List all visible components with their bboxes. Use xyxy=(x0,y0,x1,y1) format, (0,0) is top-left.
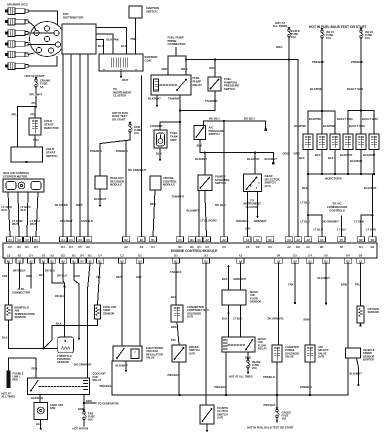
svg-text:PPL/WHT: PPL/WHT xyxy=(60,219,73,223)
svg-text:TAN/WHT: TAN/WHT xyxy=(172,195,185,199)
svg-text:C4: C4 xyxy=(308,254,312,258)
svg-text:LT BLU: LT BLU xyxy=(233,317,242,321)
svg-text:CONNECTOR: CONNECTOR xyxy=(12,291,30,295)
svg-text:WHT/BLK: WHT/BLK xyxy=(13,269,25,273)
svg-text:LT GRN: LT GRN xyxy=(366,228,376,232)
svg-text:C5: C5 xyxy=(197,245,201,249)
svg-text:C4: C4 xyxy=(98,254,102,258)
svg-text:UNIT: UNIT xyxy=(170,138,177,142)
svg-text:BLK/WHT: BLK/WHT xyxy=(195,157,208,161)
svg-text:A2: A2 xyxy=(306,245,310,249)
svg-text:PPL: PPL xyxy=(32,101,38,105)
svg-text:C2: C2 xyxy=(8,245,12,249)
svg-text:OR START: OR START xyxy=(112,117,126,121)
svg-text:A2: A2 xyxy=(239,254,243,258)
svg-text:DK BLU: DK BLU xyxy=(55,294,65,298)
svg-text:HOT IN FUEL BULB TEST OR START: HOT IN FUEL BULB TEST OR START xyxy=(309,25,367,29)
svg-text:A2: A2 xyxy=(324,254,328,258)
svg-text:BRN/WHT: BRN/WHT xyxy=(234,277,247,281)
svg-text:TAN/BLK: TAN/BLK xyxy=(170,270,182,274)
svg-text:BLK/RED: BLK/RED xyxy=(55,203,68,207)
svg-text:CLUSTER: CLUSTER xyxy=(246,205,259,209)
svg-text:BLK: BLK xyxy=(2,208,8,212)
svg-text:C3: C3 xyxy=(7,254,11,258)
svg-text:SWITCH: SWITCH xyxy=(215,181,226,185)
svg-text:BLK/PNK: BLK/PNK xyxy=(309,117,321,121)
svg-text:C3: C3 xyxy=(287,238,291,242)
svg-text:C4: C4 xyxy=(246,245,250,249)
svg-text:C3: C3 xyxy=(120,254,124,258)
svg-text:ORG: ORG xyxy=(294,152,300,156)
svg-text:D2: D2 xyxy=(359,254,363,258)
svg-text:D1: D1 xyxy=(138,254,142,258)
svg-text:DK BLU: DK BLU xyxy=(45,269,55,273)
svg-text:PPL/WHT: PPL/WHT xyxy=(30,93,43,97)
svg-text:LT BLU: LT BLU xyxy=(314,228,323,232)
svg-text:ORG/BLK: ORG/BLK xyxy=(236,219,248,223)
svg-text:BLK: BLK xyxy=(21,208,27,212)
svg-text:D2: D2 xyxy=(268,238,272,242)
svg-text:SWITCH: SWITCH xyxy=(209,132,220,136)
svg-text:WHT: WHT xyxy=(30,222,36,226)
svg-text:B1: B1 xyxy=(18,254,22,258)
svg-text:C5: C5 xyxy=(197,238,201,242)
svg-text:C1: C1 xyxy=(178,238,182,242)
svg-text:HOT IN RUN: HOT IN RUN xyxy=(73,426,89,430)
svg-text:BRN: BRN xyxy=(304,318,310,322)
svg-text:(A/T): (A/T) xyxy=(187,315,193,319)
svg-text:SENSOR: SENSOR xyxy=(103,311,114,315)
svg-text:SWITCH: SWITCH xyxy=(146,9,157,13)
svg-text:WHT: WHT xyxy=(122,78,129,82)
svg-text:BLK: BLK xyxy=(56,321,62,325)
svg-text:SWITCH: SWITCH xyxy=(46,154,57,158)
svg-text:C1: C1 xyxy=(69,238,73,242)
svg-text:A2: A2 xyxy=(205,238,209,242)
svg-text:A2: A2 xyxy=(222,238,226,242)
svg-text:BRN: BRN xyxy=(86,399,92,403)
svg-text:C4: C4 xyxy=(61,238,65,242)
svg-text:ALL TIMES: ALL TIMES xyxy=(2,395,16,399)
svg-text:C3: C3 xyxy=(256,245,260,249)
svg-text:D1: D1 xyxy=(34,238,38,242)
svg-text:BLK: BLK xyxy=(328,156,334,160)
svg-text:BLK: BLK xyxy=(197,144,203,148)
svg-text:WHT: WHT xyxy=(116,275,122,279)
svg-text:ORG: ORG xyxy=(276,45,282,49)
svg-text:PNK/BLK: PNK/BLK xyxy=(300,385,312,389)
svg-text:BLK/WHT: BLK/WHT xyxy=(247,157,260,161)
svg-text:SPARKPLUGS: SPARKPLUGS xyxy=(7,3,28,7)
svg-text:(A/T): (A/T) xyxy=(189,351,195,355)
svg-text:BLK: BLK xyxy=(222,317,228,321)
svg-text:BLK: BLK xyxy=(302,186,308,190)
svg-text:(A/T): (A/T) xyxy=(217,416,223,420)
svg-text:C1: C1 xyxy=(8,238,12,242)
svg-text:D2: D2 xyxy=(371,238,375,242)
svg-text:MODULE: MODULE xyxy=(163,183,175,187)
svg-text:DK GRN/YEL: DK GRN/YEL xyxy=(268,317,285,321)
svg-text:A2: A2 xyxy=(124,245,128,249)
svg-text:BLK/LT GRN: BLK/LT GRN xyxy=(362,117,378,121)
svg-text:PNK/BLK: PNK/BLK xyxy=(312,60,324,64)
svg-text:HOT AT ALL TIMES: HOT AT ALL TIMES xyxy=(229,374,253,378)
svg-text:PPL: PPL xyxy=(12,113,18,117)
svg-text:CLUSTER: CLUSTER xyxy=(113,94,126,98)
svg-text:(A/T): (A/T) xyxy=(318,355,324,359)
svg-text:TAN: TAN xyxy=(2,274,7,278)
svg-text:DK GRN/WHT: DK GRN/WHT xyxy=(74,363,92,367)
svg-text:C3: C3 xyxy=(25,238,29,242)
svg-text:D1: D1 xyxy=(25,245,29,249)
svg-text:B1: B1 xyxy=(140,238,144,242)
svg-text:BLK: BLK xyxy=(222,277,228,281)
svg-text:BLK/LT GRN: BLK/LT GRN xyxy=(347,87,363,91)
svg-text:BRN: BRN xyxy=(341,283,347,287)
svg-text:C4: C4 xyxy=(246,238,250,242)
svg-text:D4: D4 xyxy=(346,254,350,258)
svg-text:RELAY: RELAY xyxy=(93,378,102,382)
svg-text:DK BLU: DK BLU xyxy=(57,274,67,278)
svg-text:INJECTORS: INJECTORS xyxy=(325,177,342,181)
svg-text:TAN: TAN xyxy=(288,283,293,287)
svg-text:MODULE: MODULE xyxy=(110,183,122,187)
svg-text:D2: D2 xyxy=(80,260,84,264)
svg-text:C3: C3 xyxy=(320,238,324,242)
svg-text:D4: D4 xyxy=(69,245,73,249)
svg-text:PNK/BLK: PNK/BLK xyxy=(168,373,180,377)
svg-text:TAN/BLK: TAN/BLK xyxy=(81,219,93,223)
svg-text:GRY: GRY xyxy=(75,274,81,278)
svg-text:RELAY: RELAY xyxy=(193,83,203,87)
svg-text:C4: C4 xyxy=(29,254,33,258)
svg-text:A2: A2 xyxy=(86,245,90,249)
svg-text:20A: 20A xyxy=(252,366,257,370)
svg-text:BLK/WHT: BLK/WHT xyxy=(148,97,161,101)
svg-text:DK BLU: DK BLU xyxy=(209,116,220,120)
svg-text:COIL: COIL xyxy=(145,58,152,62)
svg-text:BLK/PNK: BLK/PNK xyxy=(107,38,119,42)
svg-text:DK GRN/WHT: DK GRN/WHT xyxy=(128,168,146,172)
svg-text:PNK: PNK xyxy=(131,37,137,41)
svg-text:D2: D2 xyxy=(61,254,65,258)
svg-text:TO GENERATOR: TO GENERATOR xyxy=(98,402,119,406)
svg-text:B1: B1 xyxy=(88,254,92,258)
svg-text:RED: RED xyxy=(162,67,168,71)
svg-text:D1: D1 xyxy=(174,254,178,258)
svg-text:PNK/BLK: PNK/BLK xyxy=(263,375,275,379)
svg-text:LT BLU/ORG: LT BLU/ORG xyxy=(201,219,217,223)
svg-text:D2: D2 xyxy=(178,245,182,249)
svg-text:10A: 10A xyxy=(326,36,331,40)
svg-text:PPL: PPL xyxy=(31,113,37,117)
svg-text:DISTRIBUTOR: DISTRIBUTOR xyxy=(63,16,84,20)
svg-text:TAN/WHT: TAN/WHT xyxy=(205,99,218,103)
svg-text:C2: C2 xyxy=(17,238,21,242)
svg-text:10A: 10A xyxy=(291,35,296,39)
svg-text:LT BLU: LT BLU xyxy=(337,228,346,232)
svg-text:BLK/LT GRN: BLK/LT GRN xyxy=(337,117,353,121)
svg-text:ORG: ORG xyxy=(181,67,187,71)
svg-text:C3: C3 xyxy=(78,238,82,242)
svg-text:ENGINE CONTROL MODULE: ENGINE CONTROL MODULE xyxy=(171,249,218,253)
svg-text:PNK/BLK: PNK/BLK xyxy=(264,403,276,407)
svg-text:SWITCH: SWITCH xyxy=(224,87,235,91)
svg-text:C5: C5 xyxy=(293,254,297,258)
svg-text:30A: 30A xyxy=(88,417,93,421)
svg-text:BLK/WHT: BLK/WHT xyxy=(265,157,278,161)
svg-text:DK GRN/WHT: DK GRN/WHT xyxy=(322,219,339,223)
svg-text:SENSOR: SENSOR xyxy=(57,360,69,364)
svg-text:D4: D4 xyxy=(359,245,363,249)
svg-text:C3: C3 xyxy=(222,245,226,249)
svg-text:BLK/PNK: BLK/PNK xyxy=(294,124,306,128)
svg-text:B1: B1 xyxy=(320,245,324,249)
svg-text:TAN/WHT: TAN/WHT xyxy=(168,97,181,101)
svg-text:D4: D4 xyxy=(34,245,38,249)
svg-text:A2: A2 xyxy=(287,245,291,249)
svg-text:BLK/WHT: BLK/WHT xyxy=(94,197,107,201)
svg-text:D2: D2 xyxy=(359,238,363,242)
svg-text:C3: C3 xyxy=(268,245,272,249)
svg-text:D2: D2 xyxy=(124,238,128,242)
svg-text:A2: A2 xyxy=(306,238,310,242)
svg-text:RELAY: RELAY xyxy=(258,347,267,351)
svg-text:D2: D2 xyxy=(17,245,21,249)
svg-text:ORG: ORG xyxy=(26,274,32,278)
svg-text:LT BLU: LT BLU xyxy=(301,201,310,205)
svg-text:VALVE: VALVE xyxy=(285,355,294,359)
svg-text:D1: D1 xyxy=(42,254,46,258)
svg-text:BLK/WHT: BLK/WHT xyxy=(187,209,200,213)
svg-text:BLK: BLK xyxy=(299,156,305,160)
svg-text:RED: RED xyxy=(13,378,19,382)
svg-text:BLK/WHT: BLK/WHT xyxy=(364,186,377,190)
svg-text:C1: C1 xyxy=(151,245,155,249)
svg-text:ORG: ORG xyxy=(209,66,215,70)
svg-text:C1: C1 xyxy=(256,238,260,242)
svg-text:GRY: GRY xyxy=(136,275,142,279)
svg-text:BLK/PNK: BLK/PNK xyxy=(310,87,322,91)
svg-text:D2: D2 xyxy=(296,245,300,249)
svg-text:DK BLU: DK BLU xyxy=(244,116,255,120)
svg-text:PNK/BLK: PNK/BLK xyxy=(100,384,112,388)
svg-text:BLK: BLK xyxy=(98,44,104,48)
svg-text:BLK: BLK xyxy=(39,273,45,277)
svg-text:HOT IN RUN, BULB TEST OR START: HOT IN RUN, BULB TEST OR START xyxy=(247,425,294,429)
svg-text:WHT: WHT xyxy=(12,222,18,226)
svg-text:LT BLU: LT BLU xyxy=(200,308,209,312)
svg-text:5A: 5A xyxy=(40,85,44,89)
svg-text:D4: D4 xyxy=(277,254,281,258)
svg-text:RED: RED xyxy=(32,367,38,371)
svg-text:D4: D4 xyxy=(80,254,84,258)
svg-text:BLK/WHT: BLK/WHT xyxy=(116,364,129,368)
svg-text:BLK/WHT: BLK/WHT xyxy=(340,153,353,157)
svg-text:BLK/WHT: BLK/WHT xyxy=(350,159,363,163)
svg-text:B1: B1 xyxy=(72,254,76,258)
svg-text:TAN: TAN xyxy=(33,138,39,142)
svg-text:BLK: BLK xyxy=(2,336,8,340)
svg-text:A2: A2 xyxy=(204,254,208,258)
svg-text:ORG: ORG xyxy=(283,152,289,156)
svg-text:ALL TIMES: ALL TIMES xyxy=(273,24,288,28)
svg-text:C5: C5 xyxy=(340,238,344,242)
svg-text:10A: 10A xyxy=(134,131,139,135)
svg-text:BLK: BLK xyxy=(121,44,127,48)
svg-text:CONNECTOR: CONNECTOR xyxy=(168,42,186,46)
svg-text:FAN: FAN xyxy=(50,406,55,410)
svg-text:BLK: BLK xyxy=(315,153,321,157)
svg-text:(A/T): (A/T) xyxy=(265,184,271,188)
svg-text:A2: A2 xyxy=(296,238,300,242)
svg-text:CONTROLS: CONTROLS xyxy=(329,208,345,212)
svg-text:BRN: BRN xyxy=(78,407,84,411)
svg-text:DK BLU: DK BLU xyxy=(215,203,226,207)
svg-text:D2: D2 xyxy=(371,245,375,249)
svg-text:A2: A2 xyxy=(140,245,144,249)
svg-text:BLK/PNK: BLK/PNK xyxy=(323,124,335,128)
svg-text:BLK/LT GRN: BLK/LT GRN xyxy=(349,124,365,128)
svg-text:C5: C5 xyxy=(78,245,82,249)
svg-text:A2: A2 xyxy=(50,254,54,258)
svg-text:GRY: GRY xyxy=(245,227,251,231)
svg-text:PNK/BLK: PNK/BLK xyxy=(90,149,102,153)
svg-text:PPL: PPL xyxy=(355,283,361,287)
svg-text:LT BLU: LT BLU xyxy=(301,220,310,224)
svg-text:HOT IN START: HOT IN START xyxy=(25,74,45,78)
svg-text:VALVE: VALVE xyxy=(146,356,155,360)
svg-text:A2: A2 xyxy=(340,245,344,249)
svg-text:SENSOR: SENSOR xyxy=(368,310,379,314)
svg-text:INJECTOR: INJECTOR xyxy=(44,126,59,130)
svg-text:TAN/WHT: TAN/WHT xyxy=(150,124,163,128)
svg-text:BLK/WHT: BLK/WHT xyxy=(363,153,376,157)
svg-text:C5: C5 xyxy=(86,238,90,242)
svg-text:D2: D2 xyxy=(190,245,194,249)
svg-text:B1: B1 xyxy=(190,238,194,242)
svg-text:BRN/WHT: BRN/WHT xyxy=(254,219,267,223)
svg-text:SENSOR: SENSOR xyxy=(250,300,261,304)
svg-text:RED: RED xyxy=(150,202,156,206)
svg-text:C3: C3 xyxy=(205,245,209,249)
svg-text:LT GRN: LT GRN xyxy=(354,220,364,224)
svg-text:BLK/RED: BLK/RED xyxy=(31,396,43,400)
svg-text:BLK/WHT: BLK/WHT xyxy=(350,372,363,376)
svg-text:SENSOR: SENSOR xyxy=(15,315,26,319)
svg-text:D1: D1 xyxy=(151,238,155,242)
svg-text:RED: RED xyxy=(171,325,177,329)
svg-text:BLK: BLK xyxy=(36,422,42,426)
svg-text:PNK/BLK: PNK/BLK xyxy=(351,60,363,64)
svg-text:D4: D4 xyxy=(61,245,65,249)
svg-text:STEPPER MOTOR: STEPPER MOTOR xyxy=(3,174,27,178)
svg-text:PNK/BLK: PNK/BLK xyxy=(116,149,128,153)
svg-text:PPL: PPL xyxy=(171,338,177,342)
svg-text:10A: 10A xyxy=(282,416,287,420)
svg-text:10A: 10A xyxy=(365,36,370,40)
svg-text:BLK: BLK xyxy=(156,152,162,156)
svg-text:BUFFER: BUFFER xyxy=(363,358,374,362)
svg-text:PNK/BLK: PNK/BLK xyxy=(215,385,227,389)
svg-text:WHT: WHT xyxy=(76,203,83,207)
svg-text:BLK/WHT: BLK/WHT xyxy=(318,276,331,280)
svg-text:BLK: BLK xyxy=(171,295,177,299)
